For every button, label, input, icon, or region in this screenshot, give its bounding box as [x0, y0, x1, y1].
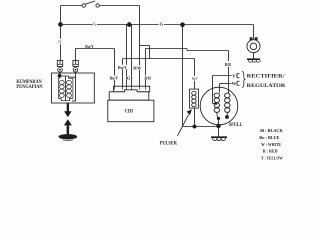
pulser pointer arrow: [178, 109, 192, 136]
brace rectifier group: [242, 71, 245, 87]
svg-text:PENGAPIAN: PENGAPIAN: [16, 84, 42, 90]
svg-text:RECTIFIER/: RECTIFIER/: [247, 74, 286, 80]
CDI connector pin stubs: [115, 86, 146, 89]
wire spull bottoms to center: [217, 113, 228, 119]
connector bracket W: [237, 81, 240, 85]
node junction ground bus end: [217, 124, 221, 128]
legend wire colour codes: [259, 128, 283, 161]
svg-text:Bl : BLACK: Bl : BLACK: [260, 128, 283, 133]
wire G drop to ignition coil: [60, 25, 62, 61]
label G CDI pin3: [127, 75, 131, 80]
CDI connector strip upper: [113, 86, 149, 92]
label KUMPARAN PENGAPIAN: [16, 79, 42, 90]
spull coil right loops: [225, 93, 230, 112]
CDI connector strip lower with tab: [109, 90, 149, 100]
label RECTIFIER/REGULATOR: [247, 74, 286, 89]
svg-text:W : WHITE: W : WHITE: [261, 142, 281, 147]
spark plug arrow up: [64, 119, 72, 134]
label Bu/Y CDI pin1: [109, 75, 119, 80]
svg-text:B/R: B/R: [144, 75, 151, 80]
spull coil left loops: [214, 93, 219, 112]
node dot spull bottom right: [226, 116, 229, 119]
wire lamp to ground: [253, 53, 255, 59]
ignition coil connector right: [73, 60, 78, 72]
wire jog B/W to pulser line: [140, 46, 150, 59]
pilot lamp L1: [247, 38, 260, 53]
kill switch SW1: [82, 1, 99, 7]
wire CDI B/R to spull exciter: [146, 49, 229, 94]
ignition coil winding loops right: [67, 80, 72, 97]
node dot coil top-left: [58, 74, 61, 77]
node dot spull bottom center: [217, 117, 219, 119]
CDI unit box U1: [108, 100, 154, 122]
svg-text:R : RED: R : RED: [263, 149, 279, 154]
pulser coil loops: [192, 91, 196, 107]
svg-text:Y : YELLOW: Y : YELLOW: [261, 156, 283, 161]
ignition coil box T1: [52, 73, 95, 103]
wire CDI G pin pair: [127, 25, 132, 87]
ground symbol below alternator: [211, 137, 227, 140]
ground bus horizontal: [183, 126, 219, 128]
HT output arrow down: [64, 103, 72, 117]
svg-text:G: G: [160, 22, 164, 27]
node junction rail-CDI: [127, 23, 131, 27]
wire left vertical from switch to ground rail: [60, 6, 62, 25]
label B/R CDI pin5: [144, 75, 152, 80]
svg-text:W: W: [232, 81, 237, 86]
label Bu/Y upper CDI: [117, 65, 127, 70]
ignition coil winding jar outline: [58, 76, 73, 101]
ignition coil core line: [64, 76, 66, 101]
node junction rail-left: [59, 23, 63, 27]
wire top kill-switch line right segment: [99, 5, 139, 7]
svg-text:Bu/Y: Bu/Y: [85, 44, 94, 49]
wire right connector into coil: [75, 72, 77, 77]
wire Y output: [213, 76, 238, 104]
connector bracket Y: [237, 74, 240, 78]
wire left connector into coil: [59, 72, 61, 76]
wire pulser Bu/Y vertical: [194, 59, 196, 90]
svg-text:Bu/Y: Bu/Y: [192, 76, 198, 81]
svg-text:G: G: [93, 22, 96, 27]
label B/W upper CDI: [133, 65, 142, 70]
wire pulser to ground bus: [194, 108, 196, 126]
svg-text:B/W: B/W: [133, 66, 142, 71]
svg-text:Bu/Y: Bu/Y: [118, 65, 127, 70]
spark plug base dome: [59, 135, 77, 141]
wire kill switch to CDI B/W: [139, 6, 141, 87]
wire coil secondary bracket: [69, 77, 76, 101]
svg-text:B/R: B/R: [225, 62, 232, 67]
wire top kill-switch line left segment: [61, 5, 83, 7]
wire ignition coil to CDI Bu/Y: [76, 49, 115, 87]
svg-text:CDI: CDI: [125, 109, 133, 115]
svg-text:G: G: [127, 75, 131, 80]
svg-text:REGULATOR: REGULATOR: [247, 83, 286, 89]
node dot Y tap on spull coil: [215, 102, 218, 105]
svg-text:PULSER: PULSER: [160, 140, 177, 146]
node junction rail-alternator: [181, 23, 185, 27]
ignition coil winding loops left: [59, 80, 64, 97]
svg-text:SPULL: SPULL: [229, 122, 243, 128]
svg-text:Bu/Y: Bu/Y: [110, 75, 119, 80]
svg-text:G: G: [58, 39, 61, 44]
wire lamp drop: [253, 25, 255, 40]
alternator flywheel circle: [200, 87, 238, 125]
pulser coil box: [189, 89, 198, 108]
wire alternator frame ground drop: [182, 25, 184, 127]
ignition coil connector left: [57, 60, 62, 72]
wire CDI pin2 to pulser Bu/Y: [123, 59, 195, 87]
node junction pulser-ground: [193, 125, 196, 128]
wire W output: [220, 84, 238, 93]
wire spull center to ground bus: [218, 118, 220, 136]
ground symbol lamp: [247, 59, 260, 62]
ground rail G horizontal: [61, 24, 254, 26]
svg-text:Bu : BLUE: Bu : BLUE: [259, 135, 279, 140]
